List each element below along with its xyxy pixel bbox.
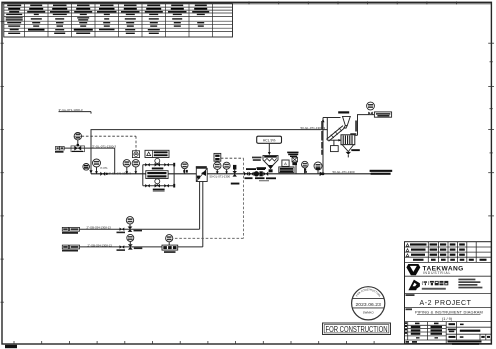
riser label vertical — [321, 121, 323, 155]
svg-text:SWMKO: SWMKO — [363, 311, 375, 315]
tag box with signal — [214, 153, 221, 161]
svg-text:2023.06.23: 2023.06.23 — [355, 302, 381, 308]
main header pipe — [91, 173, 390, 175]
svg-text:INDUSTRIAL: INDUSTRIAL — [423, 271, 452, 275]
bypass label 2"-FV-0710 — [153, 189, 165, 192]
strainer with valve — [71, 144, 85, 152]
interlock signal dashed — [173, 158, 244, 238]
gate valve vertical with actuator — [231, 165, 240, 185]
dosing arrow — [268, 143, 271, 155]
sampling box A — [282, 160, 289, 166]
loop center data box — [146, 171, 168, 179]
utility line 1 — [62, 217, 200, 234]
svg-text:3"-GL-071-1300-3: 3"-GL-071-1300-3 — [92, 144, 116, 148]
svg-text:50-GL-071-1300: 50-GL-071-1300 — [333, 170, 355, 174]
alarm annunciator box — [145, 150, 169, 157]
injection skid valves cluster — [244, 168, 276, 181]
revision rows — [406, 243, 486, 260]
wire: utility line 1 pipe — [62, 228, 199, 230]
date stamp circle — [352, 287, 385, 320]
table cell text blobs — [6, 5, 210, 34]
steam trap heater — [162, 245, 178, 253]
screw conveyor chute — [326, 126, 345, 142]
inline sight glass — [287, 152, 298, 174]
bag filter — [341, 135, 360, 158]
svg-text:2"-GB-034-1308-13: 2"-GB-034-1308-13 — [87, 226, 112, 230]
svg-text:FOR CONSTRUCTION: FOR CONSTRUCTION — [326, 324, 388, 334]
control valve bypass loop — [143, 163, 175, 188]
drain pot — [331, 140, 339, 151]
title block — [55, 102, 491, 345]
feeder line into bag filter — [327, 139, 341, 142]
instrument FI-071 — [74, 133, 81, 147]
svg-text:A: A — [284, 161, 287, 166]
scale text bottom-left of block — [406, 341, 410, 343]
valve on header — [100, 172, 105, 176]
bottom branch block valves — [145, 184, 150, 188]
sample label box — [279, 167, 294, 173]
svg-text:PIPING & INSTRUMENT DIAGRAM: PIPING & INSTRUMENT DIAGRAM — [415, 309, 483, 314]
feed line from tank — [64, 148, 115, 174]
svg-text:3"-GL-071-1300-3: 3"-GL-071-1300-3 — [109, 172, 132, 176]
signal line dashed FI to tag box — [82, 136, 137, 150]
cyclone separator — [338, 111, 350, 129]
static mixer hopper — [252, 155, 278, 165]
top branch control valve FV — [152, 158, 164, 169]
Taekwang logo — [406, 264, 420, 275]
svg-text:2"-GB-034-1308-13: 2"-GB-034-1308-13 — [88, 243, 113, 247]
wire: utility line 2 pipe — [62, 246, 203, 248]
FOR CONSTRUCTION stamp box — [323, 323, 391, 335]
utility line 2 — [62, 234, 203, 251]
svg-text:P-071: P-071 — [101, 166, 109, 170]
valve V2a — [120, 245, 125, 248]
project name row — [406, 294, 415, 296]
instrument pair TI/PI — [123, 160, 130, 174]
riser drop to chute — [326, 130, 328, 141]
mixer outlet valve — [257, 166, 274, 173]
Sambo logo — [408, 280, 420, 291]
sheet size label bottom-left — [5, 345, 17, 348]
bottom branch control valve — [155, 179, 160, 188]
tag box with indicator — [132, 151, 139, 158]
svg-text:HCL 9%: HCL 9% — [263, 138, 276, 142]
blower silencer — [374, 112, 391, 117]
line label 3"-GL-071-1300-3 top left — [59, 108, 92, 114]
instrument FT — [314, 162, 322, 174]
instrument AI — [302, 161, 309, 174]
instrument pair on header — [214, 162, 221, 174]
tank nozzle boxes left — [55, 146, 64, 152]
fan instrument — [367, 102, 375, 115]
heater instrument — [166, 235, 173, 246]
exhaust duct — [350, 115, 374, 136]
pump symbol dark — [83, 164, 90, 171]
branch junction to scrubber riser — [320, 118, 341, 177]
instrument TV-035 — [127, 234, 134, 241]
svg-text:50-GL-071-1300: 50-GL-071-1300 — [210, 175, 231, 179]
svg-text:(1 / 9): (1 / 9) — [442, 316, 453, 321]
top branch block valves — [145, 163, 150, 167]
svg-text:A-2 PROJECT: A-2 PROJECT — [419, 300, 471, 307]
valve V1a — [120, 228, 125, 231]
instrument after loop — [181, 162, 188, 174]
drawing title — [406, 308, 413, 310]
instrument TV-034 — [126, 217, 133, 224]
instrument PI-071 — [93, 159, 101, 174]
HCL 9% supply box — [257, 136, 282, 143]
diverter valve station — [196, 166, 207, 247]
bottom table of title block — [405, 322, 492, 344]
recycle line loop — [89, 118, 327, 174]
black file bar — [448, 341, 482, 343]
destination label two lines — [370, 170, 393, 175]
stream data table top-left — [4, 4, 233, 37]
